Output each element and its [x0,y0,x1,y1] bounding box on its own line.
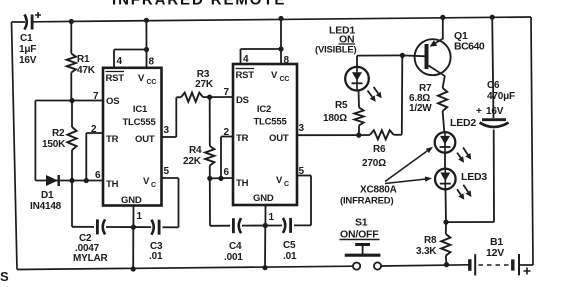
LED2 light arrows [457,148,471,163]
svg-text:3: 3 [299,123,305,134]
wire C6 bottom [493,130,495,223]
node C6 rail [490,15,495,20]
IC2 pin TH label [236,178,249,189]
svg-text:V: V [271,70,278,81]
capacitor C5 [283,218,291,233]
wire Q1 base [402,54,426,57]
R6 label [362,144,386,169]
node Q1 rail [440,15,445,20]
node R8 bottom [444,262,449,267]
IC1 pin VCC label [138,73,156,86]
wire bottom rail right of S1 [382,265,470,266]
node gnd2 stub bottom [262,265,267,270]
C3 label [149,241,163,262]
svg-text:D1: D1 [41,190,54,201]
svg-text:OUT: OUT [269,133,289,144]
svg-text:S1: S1 [355,217,368,229]
svg-text:1: 1 [137,211,143,222]
wire left drop to D1 [34,101,36,181]
Q1 label [454,30,485,53]
svg-text:V: V [143,176,150,187]
svg-text:TR: TR [106,134,119,145]
svg-text:.01: .01 [283,251,297,262]
IC1 pin5 number [164,166,170,177]
wire TH line [35,180,103,182]
node base junction [400,53,405,58]
capacitor C4 [233,218,241,233]
wire C2 drop [72,181,94,227]
svg-text:7: 7 [93,91,99,102]
svg-text:12V: 12V [486,247,504,259]
svg-text:1μF: 1μF [19,44,36,55]
svg-text:R6: R6 [373,144,386,155]
svg-text:LED3: LED3 [461,171,487,183]
wire IC1 vcc drop [145,20,147,49]
svg-text:TLC555: TLC555 [253,117,287,128]
callout arrow to LED3 [385,177,432,184]
wire R7 to LED2 [443,111,445,132]
svg-text:TH: TH [236,178,249,189]
wire bottom rail battery to corner [520,264,533,266]
IC2 pin3 number [299,123,305,134]
wire IC2 vcc drop [280,19,282,50]
node R1 top on rail [69,19,74,24]
svg-text:RST: RST [106,73,125,84]
svg-text:V: V [276,175,283,186]
svg-text:TLC555: TLC555 [122,117,156,128]
svg-text:OUT: OUT [135,134,155,145]
wire R6 right up [394,55,403,134]
svg-text:47K: 47K [77,65,96,76]
wire R6 left [359,134,370,136]
IC2 pin RST label [236,69,255,82]
resistor R7 [438,88,447,111]
svg-text:GND: GND [121,195,142,206]
IC2 pin6 number [224,167,230,178]
wire R3 left [176,96,181,98]
svg-text:OS: OS [106,96,119,107]
IC1 pin OS label [106,96,119,107]
svg-text:(INFRARED): (INFRARED) [340,196,393,207]
wire to C6 branch [446,221,494,223]
IC1 pin8 number [149,57,155,68]
IC1 pin3 number [164,125,170,136]
node R2 bottom [69,178,74,183]
node IC1 rail [144,18,149,23]
svg-text:8: 8 [284,55,290,66]
IC1 pin6 number [95,170,101,181]
svg-text:5: 5 [164,166,170,177]
IC2 pin VC label [276,175,289,188]
svg-text:+: + [476,106,482,117]
diode D1 [46,175,59,186]
IC1 labels [122,104,156,128]
svg-text:2: 2 [224,127,230,138]
C5 label [283,240,297,262]
wire right border [531,17,533,265]
svg-text:270Ω: 270Ω [362,158,386,169]
C2 label [73,233,109,264]
wire Q1 emitter to rail [442,17,444,39]
svg-text:R4: R4 [189,145,202,156]
svg-text:TR: TR [236,133,249,144]
svg-text:16V: 16V [19,55,37,66]
wire C2-C3 [106,226,151,228]
svg-text:(VISIBLE): (VISIBLE) [315,45,357,56]
wire LED3 bottom [445,189,448,222]
IC2 pin8 number [284,55,290,66]
node IC1 bracket [144,47,149,52]
svg-text:16V: 16V [486,106,504,117]
svg-text:4: 4 [243,54,249,65]
svg-text:150K: 150K [42,139,66,150]
LED3 light arrows [457,185,471,200]
B1 plus sign [524,268,531,275]
node TR1 drop [84,178,89,183]
resistor R5 [354,108,363,136]
resistor R4 [205,97,214,178]
IC1 pin4 stub [113,50,115,68]
wire Q1 collector [443,76,445,88]
svg-text:3: 3 [164,125,170,136]
C1 value label [19,33,37,66]
S1 label [340,217,380,241]
IC2 pin4 number [243,54,249,65]
wire R4 to C4 line [210,178,230,225]
C1 plus sign [35,12,41,18]
node OS junction [69,98,74,103]
wire R3 right [203,96,210,98]
stray letter S bottom-left [0,269,9,284]
node R4 bottom [207,176,212,181]
svg-text:C: C [284,181,289,188]
wire C2C3 ground stub [132,227,134,269]
IC1 pin8 stub [146,50,148,68]
node IC2 rail [278,16,283,21]
svg-text:BC640: BC640 [454,41,485,53]
wire DS2 [210,96,233,98]
svg-text:CC: CC [147,79,157,86]
svg-text:C1: C1 [20,33,33,44]
wire OUT1 [162,97,177,137]
svg-text:LED2: LED2 [450,117,476,129]
svg-text:C: C [151,182,156,189]
wire TH2 line [210,177,233,179]
svg-text:IC2: IC2 [257,104,271,115]
IC2 pin4 stub [240,49,242,64]
R2 label [42,128,66,150]
svg-text:S: S [0,269,9,284]
node IC2 bracket [278,46,283,51]
R4 label [183,145,202,167]
wire top supply rail [34,17,532,22]
wire OS line [35,100,103,102]
node TR2 drop [218,176,223,181]
svg-text:R2: R2 [52,128,65,139]
IC1 pin1 number [137,211,143,222]
svg-text:TH: TH [106,179,119,190]
svg-text:3.3K: 3.3K [416,246,437,257]
svg-text:1: 1 [269,212,275,223]
IC2 pin TR label [236,133,249,144]
IC2 pin8 stub [280,49,282,64]
op-amp U1 IC1 TLC555 box [103,68,162,206]
svg-text:ON/OFF: ON/OFF [340,229,379,241]
svg-text:7: 7 [224,87,230,98]
svg-text:.01: .01 [149,251,163,262]
wire C3 right [163,226,179,228]
IC2 pin2 number [224,127,230,138]
resistor R3 [181,93,203,102]
wire TR1 [86,133,103,181]
svg-text:R5: R5 [335,100,348,111]
XC880A label [340,185,397,207]
LED2 label [450,117,476,129]
wire C4C5 ground stub [264,226,266,268]
svg-text:MYLAR: MYLAR [73,253,109,264]
wire OUT2 [297,134,359,136]
svg-text:6: 6 [224,167,230,178]
node C4C5 junction [263,223,268,228]
LED3 [435,169,456,190]
wire VC1 [162,178,179,227]
LED1 light arrows [368,87,382,102]
node R3R4DS [207,95,212,100]
callout arrow to LED2 [385,147,433,182]
wire bottom rail left [17,266,353,269]
IC2 pin OUT label [269,133,289,144]
svg-text:27K: 27K [195,79,214,90]
LED3 label [461,171,487,183]
IC2 pin7 number [224,87,230,98]
capacitor C2 [97,219,105,234]
wire R5 to LED1 [358,90,361,108]
wire C6 top [492,17,493,118]
svg-text:IN4148: IN4148 [30,201,62,212]
svg-text:C4: C4 [229,241,242,252]
resistor R8 [441,222,450,265]
capacitor C1 [24,15,32,30]
IC1 pin TH label [106,179,119,190]
svg-text:C6: C6 [487,80,500,91]
IC2 pin DS label [236,95,249,106]
node LED3 bottom junction [443,220,448,225]
IC1 pin4 number [117,56,123,67]
title clipped at top [112,0,286,9]
svg-text:R8: R8 [424,235,437,246]
IC2 pin5 number [299,166,305,177]
IC1 pin VC label [143,176,156,189]
transistor Q1 [415,38,451,76]
svg-text:8: 8 [149,57,155,68]
IC2 pin GND label [253,193,274,204]
LED1 label [315,25,357,56]
node pin1 junction [131,225,136,230]
LED2 [435,132,456,153]
IC1 top bracket [114,49,147,51]
svg-text:XC880A: XC880A [360,185,397,196]
IC1 pin GND label [121,195,142,206]
svg-text:.001: .001 [224,252,243,263]
wire GND1 stub [132,206,134,228]
svg-text:DS: DS [236,95,249,106]
IC1 pin RST label [106,72,125,85]
capacitor C6 [480,120,509,127]
svg-text:1/2W: 1/2W [409,103,432,114]
R8 label [416,235,437,257]
svg-text:6: 6 [95,170,101,181]
svg-text:CC: CC [280,76,290,83]
node gnd stub bottom [131,266,136,271]
C6 label [476,80,515,117]
IC2 pin VCC label [271,70,289,83]
wire LED1 top [357,55,402,67]
wire top-left stub to C1 [12,21,26,23]
R1 label [77,54,96,76]
svg-text:V: V [138,73,145,84]
op-amp U2 IC2 TLC555 box [233,64,297,205]
svg-text:C5: C5 [283,240,296,251]
switch S1 [345,245,381,270]
wire GND2 stub [264,205,266,226]
R3 label [195,69,214,90]
D1 label [30,190,62,212]
wire VC2 [297,175,311,177]
resistor R1 [67,22,76,101]
wire LED2-LED3 [444,153,446,169]
IC1 pin OUT label [135,134,155,145]
B1 label [486,236,504,259]
resistor R6 [370,130,394,139]
capacitor C3 [151,220,159,235]
svg-text:4: 4 [117,56,123,67]
battery B1 [470,254,519,276]
R7 label [409,83,432,114]
svg-text:RST: RST [236,70,255,81]
R5 label [323,100,348,124]
IC2 top bracket [241,48,282,50]
node OUT2 junction [356,133,361,138]
IC2 pin1 number [269,212,275,223]
svg-text:470μF: 470μF [487,91,515,102]
IC1 pin TR label [106,134,119,145]
C4 label [224,241,243,263]
svg-text:R1: R1 [77,54,90,65]
svg-text:GND: GND [253,193,274,204]
svg-text:IC1: IC1 [133,104,148,115]
LED1 [345,67,369,91]
svg-text:22K: 22K [183,156,202,167]
resistor R2 [67,101,76,181]
wire C4-C5 [242,225,282,227]
IC1 pin2 number [91,124,97,135]
IC1 pin7 number [93,91,99,102]
IC2 labels [253,104,287,128]
wire TR2 [221,137,233,179]
svg-text:180Ω: 180Ω [323,113,347,124]
wire C5 right [294,176,311,226]
wire left border [12,22,18,270]
